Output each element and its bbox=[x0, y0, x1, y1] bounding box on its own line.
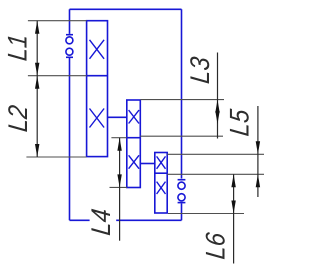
arrowhead L4 top bbox=[117, 138, 121, 151]
arrowhead L5 bottom outside bbox=[256, 174, 260, 187]
arrowhead L5 top outside bbox=[256, 141, 260, 154]
coupling M1 flange bar lower bbox=[66, 56, 73, 58]
svg-text:L3: L3 bbox=[186, 55, 216, 85]
coupling M1 circle lower bbox=[66, 48, 73, 55]
wire: output shaft IV upper segment bbox=[181, 9, 183, 178]
extension line E6 top of gear C bbox=[167, 153, 264, 155]
dimension line L3 vertical bbox=[217, 53, 219, 139]
gear B2 cross bbox=[129, 155, 139, 168]
coupling M2 flange bar lower bbox=[178, 202, 186, 204]
gear block A divider bbox=[87, 75, 108, 77]
extension line E1 top of gear A bbox=[28, 20, 87, 22]
wire: shaft I lower segment down to bottom line bbox=[69, 58, 71, 220]
gear C1 cross bbox=[157, 156, 166, 168]
dimension line L4 vertical bbox=[119, 138, 121, 241]
arrowhead L2 top bbox=[35, 76, 39, 89]
wire: output shaft IV lower segment bbox=[181, 203, 183, 220]
gear block C outline bbox=[155, 153, 167, 214]
arrowhead L1 bottom bbox=[35, 63, 39, 76]
arrowhead L3 bottom bbox=[215, 111, 219, 124]
svg-text:L1: L1 bbox=[3, 33, 33, 63]
extension line E10 bottom of gear B bbox=[110, 186, 128, 188]
extension line E8 bottom of gear C bbox=[168, 213, 244, 215]
coupling M2 circle upper bbox=[178, 182, 185, 189]
shaft II link: gear A to gear B bbox=[108, 116, 127, 118]
arrowhead L3 top bbox=[215, 100, 219, 113]
svg-text:L4: L4 bbox=[87, 207, 117, 237]
wire: input shaft I upper segment bbox=[69, 9, 71, 34]
arrowhead L2 bottom bbox=[35, 144, 39, 157]
extension line E7 divider of gear C bbox=[167, 173, 264, 175]
svg-text:L2: L2 bbox=[4, 104, 34, 134]
coupling M2 flange bar upper bbox=[178, 179, 186, 181]
arrowhead L4 bottom bbox=[117, 174, 121, 187]
wire: top connecting line between shaft I and shaft IV bbox=[70, 8, 182, 10]
coupling M1 circle upper bbox=[66, 37, 73, 44]
wire: bottom connecting line right segment bbox=[116, 219, 181, 221]
gear A1 cross bbox=[90, 40, 105, 59]
extension line E4 top of gear B bbox=[140, 99, 224, 101]
svg-text:L5: L5 bbox=[225, 107, 255, 137]
gear B1 cross bbox=[129, 110, 139, 123]
arrowhead L6 bottom bbox=[231, 201, 235, 214]
gear A2 cross bbox=[90, 109, 105, 128]
shaft III link: gear B to gear C bbox=[140, 163, 155, 165]
gear block B outline bbox=[127, 100, 141, 188]
svg-text:L6: L6 bbox=[201, 230, 231, 260]
gear block A outline bbox=[87, 21, 108, 157]
coupling M1 flange bar upper bbox=[66, 34, 73, 36]
extension line E9 divider of gear B bbox=[111, 137, 126, 139]
extension line E3 bottom of gear A bbox=[26, 156, 86, 158]
coupling M2 circle lower bbox=[178, 194, 185, 201]
extension line E2 divider of gear A bbox=[28, 75, 87, 77]
extension line E5 mid right bbox=[140, 135, 223, 137]
gear block C divider bbox=[155, 172, 167, 174]
arrowhead L1 top bbox=[35, 21, 39, 34]
arrowhead L6 top bbox=[231, 174, 235, 187]
dimension line L1-L2 vertical bbox=[36, 21, 38, 157]
dimension line L5 vertical bbox=[257, 106, 259, 197]
dimension line L6 vertical bbox=[233, 174, 235, 263]
gear C2 cross bbox=[157, 182, 166, 194]
wire: bottom connecting line left segment bbox=[70, 219, 90, 221]
gear block B divider bbox=[127, 137, 141, 139]
